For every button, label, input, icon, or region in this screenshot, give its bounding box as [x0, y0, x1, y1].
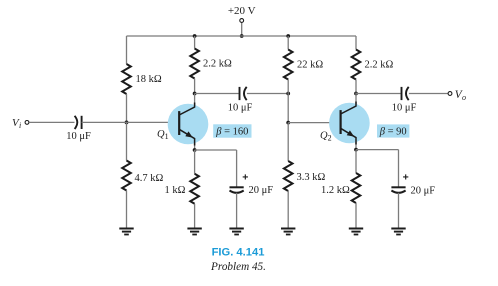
svg-text:20 μF: 20 μF	[411, 185, 436, 196]
svg-text:10 μF: 10 μF	[392, 103, 417, 114]
resistor 2.2 kΩ (RC2)	[352, 50, 361, 80]
terminal Vi	[25, 121, 29, 125]
transistor Q1 collector wire stub	[194, 94, 196, 106]
wire R 1.2k to ground	[355, 203, 357, 228]
transistor Q1 emitter lead	[179, 129, 194, 145]
svg-text:β = 160: β = 160	[215, 127, 248, 138]
capacitor C2 10 µF interstage	[240, 87, 247, 100]
transistor Q2 emitter arrow	[347, 130, 355, 136]
transistor Q1 collector lead	[179, 103, 194, 116]
transistor Q1 body circle	[168, 104, 209, 145]
node base Q2	[286, 121, 290, 125]
wire R 1k to ground	[194, 204, 196, 228]
wire C bypass 1 to ground	[236, 193, 238, 228]
svg-text:2.2 kΩ: 2.2 kΩ	[365, 60, 394, 71]
node interstage/divider 2	[286, 92, 290, 96]
resistor 1 kΩ (RE1)	[190, 174, 199, 204]
wire interstage node to base node 2	[287, 94, 289, 123]
svg-text:2.2 kΩ: 2.2 kΩ	[203, 59, 232, 70]
wire emitter node 2 to C bypass 2	[356, 149, 399, 151]
svg-text:+20 V: +20 V	[228, 5, 256, 17]
label box β = 160	[213, 124, 251, 137]
resistor 18 kΩ (R1)	[122, 64, 131, 94]
transistor Q2 collector lead	[341, 102, 356, 115]
wire R 4.7k to ground	[126, 191, 128, 229]
transistor Q2 base bar	[340, 110, 342, 134]
svg-text:10 μF: 10 μF	[228, 103, 253, 114]
node emitter Q2	[354, 148, 358, 152]
junction supply/rail	[240, 34, 244, 38]
svg-text:+: +	[403, 171, 409, 183]
wire +20V drop	[241, 23, 243, 36]
svg-text:20 μF: 20 μF	[249, 185, 274, 196]
wire node to R 4.7k	[126, 122, 128, 160]
wire C bypass 2 to ground	[398, 193, 400, 228]
svg-text:+: +	[242, 171, 248, 183]
wire C out to Vo	[409, 93, 448, 95]
wire rail to R 2.2k	[194, 36, 196, 49]
terminal Vo	[448, 92, 452, 96]
node collector Q2	[354, 92, 358, 96]
wire emitter node 2 to R 1.2k	[355, 150, 357, 173]
svg-text:Vo: Vo	[455, 89, 466, 102]
wire down to C bypass 2	[398, 150, 400, 188]
resistor 2.2 kΩ (RC1)	[190, 49, 199, 79]
wire emitter node to R 1k	[194, 150, 196, 174]
capacitor C5 20 µF bypass 2	[391, 187, 405, 193]
wire R 2.2k to collector node	[194, 79, 196, 94]
wire base node 2 to R 3.3k	[287, 123, 289, 161]
svg-text:Q1: Q1	[157, 129, 169, 141]
wire rail to R 22k	[287, 36, 289, 50]
node base divider 1	[125, 121, 129, 125]
transistor Q1 emitter wire stub	[194, 143, 196, 151]
wire R 3.3k to ground	[287, 191, 289, 228]
resistor 22 kΩ (R3)	[284, 50, 293, 80]
transistor Q2 body circle	[329, 103, 370, 144]
terminal +20 V	[240, 19, 244, 23]
wire R to collector node 2	[355, 80, 357, 94]
svg-text:10 μF: 10 μF	[66, 131, 91, 142]
svg-text:Problem 45.: Problem 45.	[210, 261, 266, 273]
transistor Q2 emitter wire stub	[355, 142, 357, 150]
wire rail to R 2.2k second	[355, 36, 357, 50]
wire emitter node to C bypass 1	[195, 149, 237, 151]
svg-text:18 kΩ: 18 kΩ	[136, 74, 162, 85]
node collector Q1	[193, 92, 197, 96]
svg-text:Q2: Q2	[320, 131, 332, 143]
label box β = 90	[377, 124, 409, 137]
resistor 1.2 kΩ (RE2)	[352, 173, 361, 203]
svg-text:1.2 kΩ: 1.2 kΩ	[321, 185, 350, 196]
transistor Q2 collector wire stub	[355, 93, 357, 105]
capacitor C3 20 µF bypass 1	[230, 187, 244, 193]
wire Vi to C input	[29, 121, 74, 123]
capacitor C1 10 µF input	[75, 116, 82, 129]
svg-text:FIG. 4.141: FIG. 4.141	[212, 247, 265, 259]
junction rail/R 2.2k	[193, 34, 197, 38]
svg-text:22 kΩ: 22 kΩ	[297, 60, 323, 71]
ground G2	[187, 229, 201, 235]
wire collector Q1 to C2	[195, 93, 239, 95]
wire R 18k to base node	[126, 94, 128, 122]
wire R 22k to interstage node	[287, 80, 289, 94]
resistor 3.3 kΩ (R4)	[284, 161, 293, 191]
ground G1	[119, 229, 133, 235]
wire collector Q2 to C out	[356, 93, 401, 95]
wire down to C bypass 1	[236, 150, 238, 187]
svg-text:Vi: Vi	[12, 117, 21, 130]
wire top supply rail	[127, 35, 357, 37]
resistor 4.7 kΩ (R2)	[122, 161, 131, 191]
ground G5	[349, 229, 363, 235]
junction rail/R 22k	[286, 34, 290, 38]
svg-text:3.3 kΩ: 3.3 kΩ	[297, 172, 326, 183]
wire C input to Q1 base	[82, 121, 179, 123]
ground G4	[281, 229, 295, 235]
wire rail to R 18k	[126, 36, 128, 64]
transistor Q1 base bar	[178, 111, 180, 135]
wire base node 2 to Q2 base	[288, 122, 342, 124]
transistor Q1 emitter arrow	[185, 131, 193, 137]
node emitter Q1	[193, 148, 197, 152]
capacitor C4 10 µF output	[402, 87, 409, 100]
svg-text:4.7 kΩ: 4.7 kΩ	[135, 173, 164, 184]
svg-text:1 kΩ: 1 kΩ	[165, 185, 186, 196]
ground G3	[229, 229, 243, 235]
svg-text:β = 90: β = 90	[379, 127, 407, 138]
ground G6	[391, 229, 405, 235]
transistor Q2 emitter lead	[341, 128, 356, 144]
wire C2 to node stage2	[247, 93, 288, 95]
